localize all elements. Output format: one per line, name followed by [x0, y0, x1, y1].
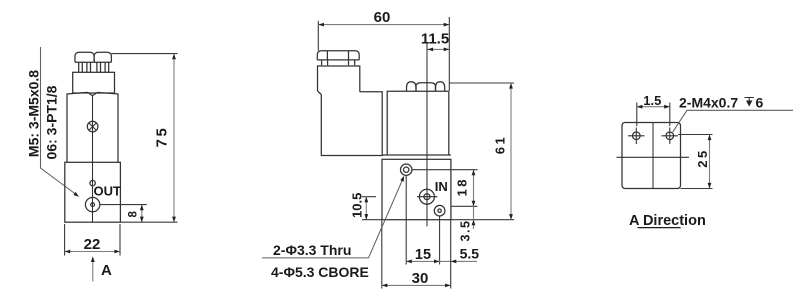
bottom edge extensions	[362, 219, 382, 221]
svg-text:30: 30	[412, 270, 429, 287]
svg-text:A: A	[101, 262, 112, 279]
svg-text:IN: IN	[435, 179, 448, 194]
coil body (side)	[321, 92, 382, 156]
valve upper body (side)	[387, 91, 449, 155]
cap necks	[322, 60, 355, 65]
left cap dome 2	[94, 52, 111, 62]
chamfer	[318, 91, 322, 95]
leader line from labels to OUT port	[41, 47, 78, 196]
terminal bump 3	[436, 82, 445, 92]
prongs under domes	[79, 62, 109, 72]
small mounting hole bottom	[434, 205, 445, 216]
callout leader	[262, 177, 404, 258]
centerline	[92, 96, 94, 222]
svg-text:5.5: 5.5	[460, 246, 480, 262]
svg-text:2-M4x0.7: 2-M4x0.7	[679, 95, 738, 111]
terminal bump 1	[407, 82, 417, 92]
svg-text:06: 3-PT1/8: 06: 3-PT1/8	[43, 85, 59, 159]
depth symbol	[745, 98, 755, 106]
tapped hole left (M4)	[633, 132, 641, 140]
dimension 11.5	[426, 43, 428, 91]
mounting face block	[622, 123, 681, 189]
dimension 30	[381, 220, 383, 289]
side cap outline	[317, 51, 359, 60]
dimension 75	[111, 53, 177, 55]
dimension 5.5	[440, 260, 477, 262]
label leader to right hole	[673, 110, 793, 132]
A direction arrow	[92, 258, 94, 282]
left cap dome 1	[75, 52, 94, 62]
dimension 60	[317, 21, 319, 51]
tapped hole right (M4)	[666, 132, 674, 140]
block centerline vertical	[652, 123, 654, 189]
screw head	[87, 121, 98, 132]
upper block	[73, 72, 115, 93]
dimension 3.5	[473, 206, 475, 229]
base block	[65, 162, 121, 222]
svg-text:25: 25	[695, 148, 710, 167]
dimension 61	[449, 82, 514, 84]
dimension 22	[64, 224, 66, 256]
dimension 8	[100, 204, 147, 206]
svg-text:3.5: 3.5	[459, 220, 473, 242]
dimension 1.5	[636, 103, 638, 127]
svg-text:22: 22	[84, 236, 101, 253]
svg-text:75: 75	[154, 126, 171, 148]
IN port hole with cross	[419, 189, 434, 204]
svg-text:OUT: OUT	[94, 184, 122, 199]
mounting hole top-left (2-phi3.3)	[401, 164, 412, 175]
terminal bump 2	[416, 83, 436, 92]
upper block (side)	[318, 66, 360, 92]
svg-text:61: 61	[493, 135, 508, 154]
A Direction underline	[638, 227, 681, 229]
dimension 25	[678, 134, 713, 136]
svg-text:2-Φ3.3 Thru: 2-Φ3.3 Thru	[273, 242, 351, 258]
svg-text:18: 18	[454, 177, 469, 196]
svg-text:M5: 3-M5x0.8: M5: 3-M5x0.8	[25, 70, 41, 157]
solenoid body with V-notch	[67, 92, 118, 162]
valve base block (side)	[382, 154, 451, 156]
dimension 18	[412, 169, 477, 171]
dimension 10.5	[362, 196, 376, 198]
svg-text:10.5: 10.5	[350, 193, 365, 218]
svg-text:6: 6	[756, 95, 764, 111]
svg-text:4-Φ5.3 CBORE: 4-Φ5.3 CBORE	[271, 264, 369, 280]
cap base line	[75, 61, 111, 63]
dimension 15	[406, 260, 439, 262]
block horizontal line	[617, 156, 690, 158]
small pilot hole	[90, 180, 95, 185]
svg-text:15: 15	[415, 247, 431, 263]
svg-text:8: 8	[127, 211, 139, 218]
svg-text:11.5: 11.5	[421, 30, 449, 47]
OUT port hole	[85, 197, 99, 211]
svg-text:1.5: 1.5	[643, 93, 661, 108]
svg-text:A Direction: A Direction	[629, 213, 706, 229]
svg-text:60: 60	[374, 9, 391, 26]
